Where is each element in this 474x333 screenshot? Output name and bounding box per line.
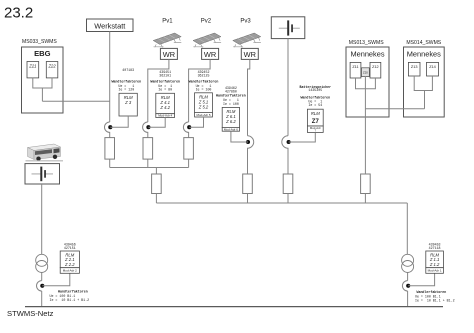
current loop T1 <box>402 281 407 291</box>
svg-text:Wandlerfaktoren: Wandlerfaktoren <box>189 79 219 83</box>
wire Mennekes fuse to bottom bus <box>364 194 366 204</box>
svg-text:Mennekes: Mennekes <box>350 50 384 59</box>
wire Mennekes1 meters join <box>356 78 376 89</box>
meter Z13 <box>408 62 420 76</box>
wire tap Z6 <box>231 131 248 142</box>
solar panel Pv1 <box>153 33 181 47</box>
battery storage box <box>271 17 305 39</box>
node battery junction <box>287 140 291 144</box>
meter RLM Z1 <box>426 251 444 273</box>
label meter Z3 values <box>111 68 141 91</box>
label meter Z6 values <box>216 86 246 106</box>
bus vehicle icon <box>26 144 64 161</box>
svg-text:1435305: 1435305 <box>308 88 322 92</box>
fuse F-Pv1 <box>143 138 153 160</box>
fuse F-Pv3 <box>243 174 253 194</box>
wire tap Z5 <box>189 117 203 127</box>
svg-text:Mod-Adr 1: Mod-Adr 1 <box>428 269 442 273</box>
node Pv3 junction <box>246 140 250 144</box>
wire Pv1 fuse to bus1 <box>147 159 149 167</box>
svg-text:Z11: Z11 <box>352 65 358 69</box>
meter RLM Z6 <box>222 107 239 131</box>
svg-text:Ie = 100: Ie = 100 <box>196 87 212 91</box>
svg-text:WR: WR <box>204 50 216 59</box>
wire main fuse to bottom bus <box>155 194 157 204</box>
node Werkstatt junction <box>108 125 112 129</box>
node Pv1 junction <box>146 125 150 129</box>
wire EBG drop <box>41 88 43 101</box>
wire bottom bus to transformer T1 <box>406 203 408 254</box>
svg-text:Z22: Z22 <box>47 63 56 68</box>
svg-text:Ie = 80: Ie = 80 <box>158 87 172 91</box>
inverter WR1 <box>160 48 177 59</box>
fuse F-main <box>152 174 162 194</box>
svg-text:MS014_SWMS: MS014_SWMS <box>406 40 441 46</box>
wire Werkstatt fuse to bus1 <box>109 159 111 167</box>
svg-text:Z20: Z20 <box>363 71 368 75</box>
wire WR1 to trunk <box>148 59 169 122</box>
svg-text:Wandlerfaktoren: Wandlerfaktoren <box>111 79 141 83</box>
svg-text:362101: 362101 <box>159 74 171 78</box>
svg-text:Z13: Z13 <box>411 65 418 69</box>
meter RLM Z7 <box>307 109 323 132</box>
wire charger to transformer T2 <box>41 184 43 254</box>
label meter Z1 values <box>429 242 441 250</box>
wire tap Z3 <box>110 116 128 127</box>
svg-text:407183: 407183 <box>122 68 134 72</box>
wire Mennekes2 meters join <box>414 76 432 91</box>
meter RLM Z5 <box>195 93 213 117</box>
svg-text:Z 6.2: Z 6.2 <box>225 119 236 124</box>
current loop battery <box>282 136 288 174</box>
wire T2 to grid bus <box>41 291 43 307</box>
svg-text:427151: 427151 <box>64 246 76 250</box>
label meter Z5 values <box>189 70 219 91</box>
label meter Z7 values <box>299 85 331 107</box>
fuse F-Werkstatt <box>105 138 115 160</box>
svg-text:Z 1.2: Z 1.2 <box>429 262 440 267</box>
svg-text:Z7: Z7 <box>312 119 320 125</box>
wire battery fuse to bottom bus <box>287 194 289 204</box>
label T1 Wandlerfaktoren <box>415 290 455 302</box>
current loop Pv1 <box>143 122 148 138</box>
wire tap Z4 <box>148 118 165 128</box>
svg-text:WR: WR <box>244 50 256 59</box>
meter RLM Z4 <box>156 93 175 117</box>
fuse F-Mennekes <box>361 174 371 194</box>
fuse F-Pv2 <box>184 138 194 160</box>
svg-text:Z21: Z21 <box>28 63 36 68</box>
svg-text:Pv1: Pv1 <box>162 19 173 25</box>
wire T1 to grid bus <box>407 291 409 307</box>
meter RLM Z3 <box>119 93 137 116</box>
svg-text:Werkstatt: Werkstatt <box>94 21 125 30</box>
svg-text:23.2: 23.2 <box>4 5 33 22</box>
node Pv2 junction <box>187 125 191 129</box>
battery charger box (bus) <box>25 164 60 184</box>
wire T1 to loop <box>407 273 409 281</box>
svg-text:EBG: EBG <box>34 49 51 58</box>
wire Mennekes1 trunk <box>364 77 366 174</box>
svg-text:427118: 427118 <box>429 246 441 250</box>
wire Werkstatt trunk <box>109 32 111 123</box>
svg-text:Mennekes: Mennekes <box>407 50 441 59</box>
svg-text:Ie = 54: Ie = 54 <box>308 103 322 107</box>
svg-text:Z 4.2: Z 4.2 <box>159 105 170 110</box>
wire Pv3 fuse to bottom bus <box>247 194 249 204</box>
label meter Z4 values <box>150 70 180 91</box>
wire EBG to Werkstatt trunk <box>42 100 109 102</box>
svg-text:Ie = 10 B1.1 + B1.2: Ie = 10 B1.1 + B1.2 <box>415 298 455 302</box>
svg-text:Z 3: Z 3 <box>124 100 132 105</box>
meter RLM Z2 <box>60 251 79 273</box>
svg-text:Mod-Adr 4: Mod-Adr 4 <box>158 114 172 118</box>
svg-text:WR: WR <box>163 50 175 59</box>
svg-text:MS033_SWMS: MS033_SWMS <box>22 39 57 45</box>
wire Mennekes2 drop <box>424 91 426 109</box>
svg-text:STWMS-Netz: STWMS-Netz <box>7 309 54 318</box>
inverter WR2 <box>202 48 219 59</box>
wire EBG meters join <box>33 78 52 88</box>
box Mennekes 2 <box>404 47 445 117</box>
wire T2 to loop <box>41 273 43 281</box>
svg-text:Pv3: Pv3 <box>240 19 251 25</box>
node T2 junction <box>40 284 44 288</box>
meter Z20 <box>362 68 370 77</box>
svg-text:362125: 362125 <box>198 74 210 78</box>
svg-text:Mod-Adr 6: Mod-Adr 6 <box>224 127 238 131</box>
inverter WR3 <box>241 48 258 59</box>
wire battery trunk <box>287 39 289 136</box>
current loop Pv2 <box>183 122 188 138</box>
wire bus1 <box>110 167 189 169</box>
box EBG <box>22 47 64 113</box>
label meter Z2 values <box>64 242 76 250</box>
meter Z22 <box>46 62 58 78</box>
svg-text:Z 5.2: Z 5.2 <box>198 105 209 110</box>
wire bottom bus <box>156 202 407 204</box>
wire tap Z2 <box>42 273 70 286</box>
svg-text:RLM: RLM <box>311 111 320 116</box>
wire tap Z7 <box>289 132 316 142</box>
svg-text:Ie = 10 B1.1 + B1.2: Ie = 10 B1.1 + B1.2 <box>50 298 90 302</box>
svg-text:Wandlerfaktoren: Wandlerfaktoren <box>150 79 180 83</box>
meter Z14 <box>427 62 439 76</box>
svg-text:Ie = 100: Ie = 100 <box>223 102 239 106</box>
current loop Werkstatt <box>104 122 109 138</box>
meter Z21 <box>27 62 39 78</box>
wire WR3 to trunk <box>248 59 250 135</box>
svg-text:Z12: Z12 <box>372 65 379 69</box>
transformer T2 <box>36 254 48 272</box>
wire WR2 to trunk <box>189 59 211 122</box>
meter Z12 <box>370 62 381 78</box>
wire bus1 drop <box>155 168 157 175</box>
svg-text:Mod-Adr 2: Mod-Adr 2 <box>63 269 77 273</box>
svg-text:Pv2: Pv2 <box>201 19 212 25</box>
svg-text:Z14: Z14 <box>429 65 436 69</box>
svg-text:Z 2.2: Z 2.2 <box>64 262 75 267</box>
current loop Pv3 (bulge right) <box>248 136 254 174</box>
svg-text:Ie = 120: Ie = 120 <box>118 87 134 91</box>
transformer T1 <box>402 254 414 272</box>
svg-text:Wandlerfaktoren: Wandlerfaktoren <box>216 94 246 98</box>
svg-text:Mod-Adr 5: Mod-Adr 5 <box>196 113 210 117</box>
meter Z11 <box>350 62 361 78</box>
solar panel Pv3 <box>233 33 261 47</box>
wire tap Z1 <box>408 273 434 286</box>
box Mennekes 1 <box>346 47 389 117</box>
wire Mennekes2 to Mennekes1 trunk <box>365 108 424 110</box>
grid bus STWMS-Netz <box>25 306 443 308</box>
svg-text:MS013_SWMS: MS013_SWMS <box>349 40 384 46</box>
current loop T2 <box>37 281 42 291</box>
solar panel Pv2 <box>193 33 221 47</box>
node T1 junction <box>406 284 410 288</box>
fuse F-battery <box>283 174 293 194</box>
wire Pv2 fuse to bus1 <box>188 159 190 167</box>
box Werkstatt <box>87 19 134 32</box>
label T2 Wandlerfaktoren <box>50 290 90 302</box>
